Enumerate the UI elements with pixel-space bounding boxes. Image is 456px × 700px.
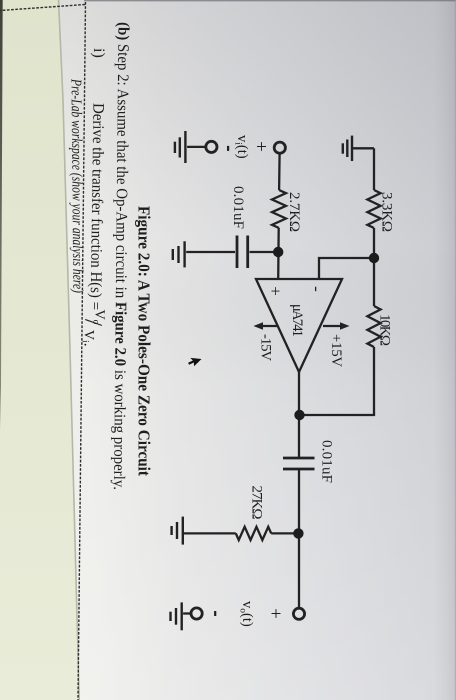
capacitor C1 plate top: [246, 236, 249, 269]
svg-text:Pre-Lab workspace (show your a: Pre-Lab workspace (show your analysis he…: [67, 78, 85, 293]
ground G1 stem: [353, 147, 374, 149]
svg-text:10KΩ: 10KΩ: [377, 314, 393, 346]
wire T2 to ground: [183, 612, 190, 614]
vo minus sign: [214, 611, 216, 616]
svg-text:Figure 2.0: A Two Poles-One Ze: Figure 2.0: A Two Poles-One Zero Circuit: [135, 206, 154, 476]
svg-text:+: +: [250, 141, 271, 152]
capacitor C2 plate left: [283, 457, 315, 460]
svg-text:3.3KΩ: 3.3KΩ: [379, 192, 395, 232]
wire C1 drop: [250, 251, 279, 253]
paper edge shadow: [59, 0, 80, 700]
node B: [294, 410, 304, 420]
ground G6 bars: [171, 602, 182, 630]
ground G5 bars: [172, 517, 183, 545]
wire C1 to ground: [186, 251, 235, 253]
workspace dashed border top: [78, 2, 86, 700]
svg-text:-15V: -15V: [258, 334, 274, 362]
green desk area at bottom: [0, 0, 79, 700]
dark photo edge bottom-left: [0, 0, 3, 430]
workspace dashed border left: [0, 5, 85, 11]
wire rail mid: [373, 228, 375, 306]
op-amp U1 triangle: [256, 279, 342, 372]
wire output to terminal: [298, 469, 300, 608]
supply -15V arrow: [260, 325, 277, 327]
-15V arrowhead: [254, 322, 264, 330]
svg-text:+: +: [265, 608, 286, 619]
photo right edge hairline: [454, 0, 456, 700]
node C: [273, 247, 283, 257]
ground G1 bars: [343, 136, 352, 161]
capacitor C1 plate bottom: [236, 236, 239, 269]
svg-text:μA741: μA741: [289, 304, 305, 337]
+15V arrowhead: [340, 322, 350, 330]
svg-text:-: -: [308, 286, 327, 292]
wire top rail: [373, 148, 375, 190]
svg-text:0.01uF: 0.01uF: [319, 440, 335, 483]
node A: [369, 253, 379, 263]
svg-text:Vi.: Vi.: [80, 330, 98, 347]
capacitor C2 plate right: [283, 468, 315, 471]
resistor R1 3.3K zigzag: [367, 190, 380, 228]
photo top edge hairline: [84, 0, 456, 2]
node D: [293, 528, 303, 538]
svg-text:27KΩ: 27KΩ: [249, 486, 265, 520]
svg-text:+15V: +15V: [328, 334, 344, 368]
svg-text:/: /: [79, 319, 106, 326]
wire 27K to ground: [184, 532, 236, 534]
vi minus sign: [227, 146, 229, 151]
mouse cursor: [188, 358, 201, 366]
resistor R3 27K zigzag: [236, 527, 271, 540]
wire R4 to op-amp plus: [277, 228, 280, 280]
wire feedback drop: [300, 414, 376, 416]
terminal T1 vo plus: [293, 608, 304, 619]
wire minus input from node A: [319, 258, 374, 280]
svg-text:i): i): [90, 48, 107, 58]
svg-text:Derive the transfer function H: Derive the transfer function H(s) =: [87, 103, 107, 310]
svg-text:2.7KΩ: 2.7KΩ: [286, 192, 302, 232]
terminal T2 vo minus: [191, 608, 202, 619]
wire vi to R4: [278, 154, 281, 191]
svg-text:vi(t): vi(t): [233, 135, 251, 159]
svg-text:+: +: [266, 286, 285, 296]
resistor R4 2.7K zigzag: [272, 190, 286, 228]
svg-text:vo(t): vo(t): [238, 601, 256, 627]
wire rail right: [373, 347, 375, 415]
wire 27K stem top: [271, 532, 298, 534]
wire op-amp output: [298, 372, 300, 458]
resistor R2 10K zigzag: [367, 306, 380, 347]
svg-text:0.01uF: 0.01uF: [230, 186, 246, 229]
supply +15V arrow: [323, 325, 343, 327]
terminal T4 vi minus: [206, 141, 217, 152]
ground G3 bars: [175, 131, 186, 163]
wire T4 to ground: [187, 146, 206, 148]
terminal T3 vi plus: [274, 142, 285, 153]
ground G4 bars: [173, 241, 185, 267]
